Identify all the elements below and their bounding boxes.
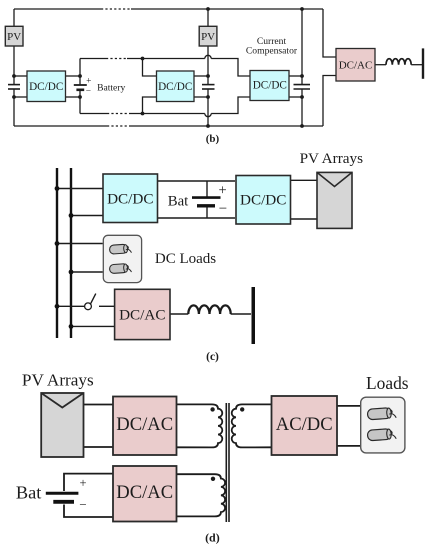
node bus2 DC/DC — [69, 213, 74, 218]
svg-text:(b): (b) — [206, 133, 220, 145]
wire bottom bus right segment — [131, 125, 323, 127]
svg-text:Bat: Bat — [16, 483, 42, 503]
wire mid top bus after hop — [211, 59, 250, 77]
wire bus1 to switch — [57, 305, 84, 307]
inverter DC/AC 2 (d) — [113, 466, 177, 522]
wire bus1 to DC/DC top — [57, 188, 103, 190]
svg-text:(d): (d) — [205, 531, 220, 545]
svg-text:PV: PV — [7, 31, 21, 43]
svg-text:PV Arrays: PV Arrays — [22, 370, 94, 389]
svg-text:DC Loads: DC Loads — [155, 251, 216, 267]
wire Bat bottom to DC/AC2 — [64, 505, 113, 518]
transformer secondary winding — [232, 404, 272, 447]
DC bus line 2 — [70, 168, 72, 338]
wire inductor to bar (c) — [231, 313, 251, 315]
battery Bat plates (d) — [46, 493, 79, 502]
battery Bat plates (c) — [192, 198, 221, 206]
PV array panel (c) — [317, 172, 352, 228]
capacitor C2 — [202, 85, 215, 89]
label Current Compensator — [246, 36, 298, 57]
converter DC/DC 2 — [157, 71, 195, 102]
node bus2 inverter — [69, 324, 74, 329]
wire DC/DC1 right top lead — [66, 75, 80, 77]
node bus1 DC/DC — [55, 186, 60, 191]
wire bus2 to DC/DC bottom — [71, 215, 103, 217]
loads box (d) — [361, 397, 405, 453]
converter DC/DC 2 (c) — [236, 176, 291, 225]
svg-text:Loads: Loads — [366, 373, 409, 393]
wire DC/DC1 left top lead — [14, 75, 27, 77]
DC bus line 1 — [56, 168, 58, 338]
wire DC/DC2c to PV bottom — [291, 218, 317, 220]
wire hop over PV2 line (top) — [205, 55, 211, 58]
wire bus2 to DC loads — [71, 271, 103, 273]
wire DC/DC1 right bottom lead — [66, 96, 80, 98]
svg-text:DC/DC: DC/DC — [253, 80, 287, 92]
inverter DC/AC (c) — [115, 289, 170, 339]
wire mid bottom bus from battery — [80, 113, 107, 115]
wire mid bottom bus dashed — [107, 113, 131, 115]
wire DC-link vertical lower — [301, 89, 303, 126]
PV array panel (d) — [41, 393, 83, 457]
svg-text:−: − — [86, 87, 91, 97]
wire PV2 vertical lower — [207, 89, 209, 126]
svg-text:DC/DC: DC/DC — [240, 192, 286, 209]
inductor L1 — [386, 59, 411, 65]
svg-text:DC/AC: DC/AC — [116, 482, 173, 503]
load cylinder 2 (d) — [367, 428, 396, 441]
node battery top lead — [78, 74, 82, 78]
wire DC/DC2 right top lead — [194, 75, 208, 77]
svg-text:DC/DC: DC/DC — [158, 81, 192, 93]
svg-text:+: + — [86, 77, 91, 87]
svg-text:DC/AC: DC/AC — [116, 414, 173, 435]
wire left vertical upper — [13, 9, 15, 85]
svg-text:(c): (c) — [206, 351, 219, 363]
wire PV2 vertical mid — [207, 46, 209, 85]
wire left vertical lower — [13, 89, 15, 126]
switch S1 contact circle — [85, 303, 92, 310]
node bottom bus / DC-link — [300, 124, 304, 128]
svg-text:PV: PV — [201, 31, 215, 43]
node bus1 inverter — [55, 304, 60, 309]
switch S1 blade — [91, 294, 96, 304]
wire bottom bus left segment — [14, 125, 107, 127]
svg-text:Compensator: Compensator — [246, 46, 298, 57]
grid bar (c) — [252, 287, 256, 344]
svg-text:DC/AC: DC/AC — [119, 306, 165, 323]
wire DC/DC1c right bottom to DC/DC2c — [158, 217, 236, 219]
node battery bottom lead — [78, 95, 82, 99]
wire mid top bus dashed — [106, 58, 127, 60]
svg-text:Battery: Battery — [97, 82, 125, 93]
transformer primary winding 2 — [177, 474, 226, 516]
wire top bus right segment — [131, 8, 323, 10]
svg-text:AC/DC: AC/DC — [276, 414, 333, 435]
transformer core line 2 — [228, 403, 230, 522]
node mid top bus stub — [141, 57, 145, 61]
node left vertical top lead — [12, 74, 16, 78]
svg-text:PV Arrays: PV Arrays — [300, 150, 364, 167]
node bus2 loads — [69, 270, 74, 275]
svg-text:−: − — [219, 201, 227, 217]
wire DC/DC2c to PV top — [291, 179, 317, 181]
load cylinder 1 (d) — [367, 407, 396, 420]
wire PV2 vertical from top bus — [207, 9, 209, 26]
wire battery vertical lower — [79, 90, 81, 114]
converter DC/DC 1 — [27, 71, 66, 102]
svg-text:DC/DC: DC/DC — [107, 190, 153, 207]
node mid bottom bus stub — [141, 112, 145, 116]
wire top bus left segment — [14, 8, 101, 10]
wire DC/DC2 right bottom lead — [194, 96, 208, 98]
load cylinder 1 (c) — [109, 244, 131, 254]
wire PV to DC/AC1 top — [84, 404, 114, 406]
wire top bus dashed segment — [101, 8, 131, 10]
wire bus1 to DC loads — [57, 243, 103, 245]
wire DC/AC output (c) — [170, 313, 188, 315]
wire DC/DC2 left bottom stub — [143, 97, 157, 114]
capacitor C1 — [8, 85, 20, 89]
wire DC/DC1c right top to DC/DC2c — [158, 180, 236, 182]
wire mid top bus from battery — [80, 58, 106, 60]
converter DC/DC 3 (current compensator) — [250, 71, 289, 101]
svg-text:+: + — [219, 182, 227, 198]
phase dot secondary winding — [240, 407, 244, 411]
svg-text:DC/AC: DC/AC — [339, 59, 373, 71]
svg-text:−: − — [79, 497, 86, 512]
node PV2 line top lead — [206, 74, 210, 78]
wire inductor to grid bar — [411, 64, 422, 66]
DC loads box (c) — [103, 235, 141, 282]
rectifier AC/DC (d) — [272, 396, 338, 455]
wire AC/DC to loads bottom — [337, 445, 361, 447]
node PV2 line bottom lead — [206, 95, 210, 99]
wire DC/DC3 right bottom lead — [289, 96, 302, 98]
wire AC/DC to loads top — [337, 405, 361, 407]
wire battery vertical upper — [79, 59, 81, 86]
node left vertical bottom lead — [12, 95, 16, 99]
svg-text:Bat: Bat — [168, 194, 189, 210]
wire Bat top to DC/AC2 — [64, 474, 113, 491]
inverter DC/AC (b) — [336, 49, 375, 82]
wire mid top bus to hop — [127, 58, 205, 60]
load cylinder 2 (c) — [109, 263, 131, 273]
wire switch to DC/AC — [99, 305, 115, 307]
PV module box PV1 — [5, 26, 23, 46]
transformer core line 1 — [225, 403, 227, 522]
phase dot winding 2 — [211, 477, 215, 481]
node bus1 loads — [55, 241, 60, 246]
grid bar (b) — [422, 48, 424, 78]
node DC-link top lead — [300, 74, 304, 78]
wire mid bottom bus after hop — [211, 97, 250, 114]
node top bus / DC-link — [300, 7, 304, 11]
wire DC/DC1 left bottom lead — [14, 96, 27, 98]
transformer primary winding 1 — [177, 404, 223, 447]
wire Bat vertical lower — [206, 206, 208, 218]
PV module box PV2 — [199, 26, 217, 46]
node bottom bus / PV2 — [206, 124, 210, 128]
svg-text:+: + — [79, 476, 86, 490]
node DC-link bottom lead — [300, 95, 304, 99]
wire Bat vertical upper — [206, 181, 208, 198]
wire PV to DC/AC1 bottom — [84, 446, 114, 448]
svg-text:DC/DC: DC/DC — [29, 81, 63, 93]
wire DC/DC2 left top stub — [143, 59, 157, 77]
wire right vertical to DC/AC top — [323, 9, 336, 57]
wire DC/AC output — [375, 64, 386, 66]
wire right vertical to DC/AC bottom — [323, 76, 336, 127]
junction dots diagram c — [55, 186, 74, 329]
wire hop over PV2 line (bottom) — [205, 114, 211, 117]
wire mid bottom bus to hop — [131, 113, 205, 115]
phase dot winding 1 — [210, 407, 214, 411]
capacitor C3 — [294, 85, 311, 89]
node top bus / PV2 — [206, 7, 210, 11]
junction dots diagram b — [12, 7, 304, 128]
wire DC/DC3 right top lead — [289, 75, 302, 77]
wire DC-link vertical upper — [301, 9, 303, 85]
converter DC/DC 1 (c) — [103, 174, 158, 223]
wire bus2 to DC/AC bottom — [71, 325, 115, 327]
inductor L2 — [188, 305, 230, 314]
battery B1 plates — [74, 85, 87, 90]
wire bottom bus dashed segment — [107, 125, 131, 127]
inverter DC/AC 1 (d) — [113, 397, 177, 456]
